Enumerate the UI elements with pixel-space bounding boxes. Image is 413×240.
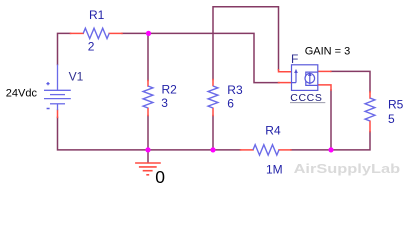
svg-text:0: 0 (155, 167, 165, 187)
svg-text:V1: V1 (69, 70, 84, 84)
svg-text:1M: 1M (266, 163, 283, 177)
svg-text:AirSupplyLab: AirSupplyLab (294, 161, 401, 176)
svg-text:3: 3 (161, 96, 168, 110)
svg-text:R5: R5 (388, 97, 404, 111)
svg-text:R1: R1 (89, 8, 105, 22)
svg-text:GAIN = 3: GAIN = 3 (305, 45, 351, 57)
svg-text:R3: R3 (227, 83, 243, 97)
svg-text:2: 2 (88, 39, 95, 53)
svg-text:5: 5 (388, 112, 395, 126)
svg-text:R2: R2 (162, 82, 178, 96)
svg-text:6: 6 (227, 96, 234, 110)
svg-text:R4: R4 (265, 124, 281, 138)
svg-text:24Vdc: 24Vdc (6, 87, 38, 99)
svg-text:F: F (291, 52, 298, 66)
